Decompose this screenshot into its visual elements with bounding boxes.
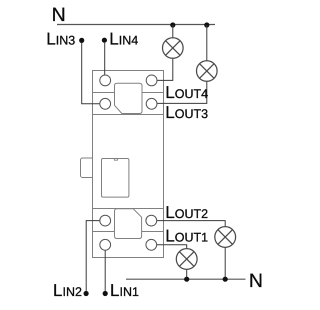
wire N to lamp E1 [172,25,174,38]
mounting tab left [81,158,94,178]
terminal pin LOUT4 (top-right) [146,75,157,86]
push button top gang [115,83,143,113]
wire LIN2 to terminal 2 [86,221,100,291]
node junction N-lamp E1 [170,22,175,27]
node junction lamp E3-N [223,277,228,282]
wire N rail top [57,24,215,26]
svg-text:N: N [52,4,66,26]
node junction lamp E4-N [184,277,189,282]
lamp E1 [163,38,184,59]
terminal pin LOUT3 (bottom-right) [146,98,157,109]
wire lamp E1 to LOUT4 terminal [157,58,173,80]
wire N to lamp E2 [206,25,208,61]
terminal pin LOUT2 (top-right bottom block) [146,215,157,226]
wire LOUT2 to lamp E3 [157,221,226,227]
wire lamp E2 to LOUT3 terminal [157,81,207,103]
node LIN1 [103,291,108,296]
push button bottom gang [115,209,142,239]
node LIN2 [84,291,89,296]
terminal pin 3 (bottom-left) [100,98,111,109]
terminal block bottom [93,209,164,258]
rocker notch [114,159,118,161]
svg-text:N: N [249,270,263,292]
terminal pin LOUT1 (bottom-right bottom block) [146,239,157,250]
terminal pin 1 (bottom-left bottom block) [100,239,111,250]
node junction N-lamp E2 [204,22,209,27]
terminal pin 4 (top-left) [100,75,111,86]
terminal pin 2 (top-left bottom block) [100,215,111,226]
wire LIN3 to terminal 3 [82,43,100,104]
wire lamp E4 to N rail [186,269,188,279]
node LIN4 [102,38,107,43]
lamp E3 [215,227,236,248]
device body U1 [93,115,164,209]
wire N rail bottom [126,278,246,280]
wire LOUT1 to lamp E4 [157,245,187,249]
wire LIN4 to terminal 4 [104,43,106,75]
lamp E4 [176,249,197,270]
wire LIN1 to terminal 1 [104,250,106,291]
lamp E2 [197,61,218,82]
terminal block top [93,71,164,115]
node LIN3 [79,38,84,43]
rocker window [102,159,129,198]
wire lamp E3 to N rail [224,247,226,279]
